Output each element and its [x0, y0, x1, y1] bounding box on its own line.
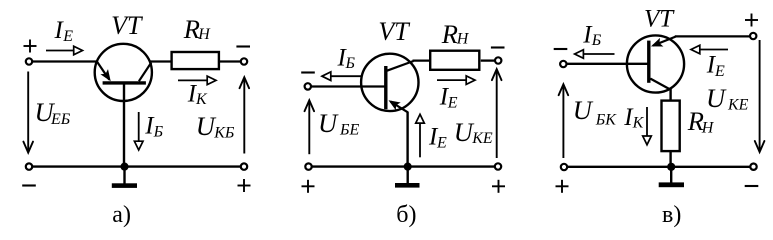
voltage arrow UKE (v) — [759, 40, 761, 150]
plus sign top-left (a) — [24, 45, 37, 47]
minus sign bottom-right (v) — [745, 185, 759, 187]
wire resistor to output (b) — [481, 59, 495, 61]
svg-text:U: U — [706, 83, 727, 113]
svg-text:К: К — [195, 91, 208, 108]
svg-text:в): в) — [662, 202, 681, 228]
svg-text:Н: Н — [197, 26, 211, 43]
resistor RH (a) — [172, 52, 219, 69]
svg-text:Е: Е — [436, 134, 447, 151]
current arrow IE vertical (b) — [419, 123, 421, 157]
terminal bottom-left (b) — [305, 163, 311, 169]
minus sign bottom-left (a) — [22, 184, 36, 186]
emitter lead with arrow (a) — [97, 62, 109, 80]
current arrow IB (a) — [138, 112, 140, 142]
svg-text:КБ: КБ — [213, 124, 235, 141]
terminal bottom-right (b) — [495, 163, 501, 169]
junction node (b) — [404, 163, 412, 171]
current arrow IE (a) — [46, 50, 75, 52]
svg-text:Е: Е — [62, 28, 73, 45]
emitter lead with arrow (v) — [653, 36, 676, 45]
transistor VT circle (b) — [361, 54, 418, 111]
svg-text:КЕ: КЕ — [727, 96, 749, 113]
wire base input (b) — [311, 85, 385, 87]
bottom rail (b) — [311, 165, 495, 167]
minus sign top-right (a) — [236, 45, 250, 47]
collector wire down (v) — [669, 89, 671, 101]
collector lead (v) — [650, 79, 671, 90]
wire base input (v) — [567, 63, 648, 65]
voltage arrow UKB (a) — [243, 79, 245, 154]
current arrow IE (v) — [700, 49, 729, 51]
junction node (a) — [120, 163, 128, 171]
svg-text:Н: Н — [456, 31, 470, 48]
ground bar (a) — [112, 183, 137, 188]
transistor VT circle (v) — [627, 35, 684, 92]
terminal input + (a) — [26, 58, 32, 64]
wire collector to resistor (a) — [150, 60, 171, 62]
svg-text:а): а) — [112, 202, 131, 228]
svg-text:К: К — [632, 115, 645, 132]
transistor VT base bar (v) — [647, 41, 650, 83]
svg-text:U: U — [318, 108, 339, 138]
plus sign bottom-left (b) — [302, 185, 315, 187]
svg-text:ЕБ: ЕБ — [50, 111, 71, 128]
terminal bottom-left (a) — [26, 163, 32, 169]
voltage arrow UBK (v) — [562, 86, 564, 158]
junction node (v) — [667, 163, 675, 171]
terminal output + (v) — [750, 33, 756, 39]
plus sign bottom-right (a) — [238, 185, 251, 187]
emitter wire down (b) — [406, 112, 408, 167]
svg-text:VT: VT — [111, 11, 143, 40]
ground stem (v) — [670, 167, 672, 183]
svg-text:БЕ: БЕ — [339, 121, 359, 138]
terminal output - (b) — [495, 57, 501, 63]
svg-text:R: R — [441, 19, 458, 49]
bottom rail (a) — [32, 165, 241, 167]
current arrow IB (b) — [331, 75, 363, 77]
terminal bottom-right (a) — [241, 163, 247, 169]
terminal input - (v) — [560, 61, 566, 67]
ground bar (b) — [395, 183, 420, 188]
ground bar (v) — [659, 182, 684, 187]
voltage arrow UKE (b) — [496, 71, 498, 158]
transistor VT base bar (b) — [384, 66, 387, 109]
wire resistor to output (a) — [220, 60, 241, 62]
terminal input - (b) — [305, 83, 311, 89]
resistor RH (b) — [430, 51, 479, 70]
svg-text:U: U — [573, 95, 594, 125]
svg-text:БК: БК — [595, 111, 617, 128]
svg-text:Е: Е — [714, 63, 725, 80]
collector lead (a) — [139, 63, 151, 82]
minus sign top-left (b) — [301, 71, 315, 73]
svg-text:Н: Н — [701, 120, 715, 137]
plus sign bottom-left (v) — [556, 185, 569, 187]
terminal output - (a) — [241, 58, 247, 64]
collector lead (b) — [387, 61, 414, 71]
wire resistor to rail (v) — [669, 152, 671, 167]
top rail emitter to terminal (v) — [675, 35, 750, 37]
transistor VT circle (a) — [95, 44, 152, 101]
minus sign top-left (v) — [554, 48, 568, 50]
base lead down (a) — [123, 83, 125, 167]
resistor RH vertical (v) — [662, 101, 680, 152]
svg-text:б): б) — [396, 202, 416, 228]
transistor VT base bar (a) — [103, 81, 146, 84]
plus sign bottom-right (b) — [492, 185, 505, 187]
svg-text:VT: VT — [378, 17, 410, 46]
terminal bottom-right (v) — [750, 164, 756, 170]
minus sign top-right (b) — [491, 46, 505, 48]
emitter lead with arrow (b) — [391, 102, 409, 113]
svg-text:Е: Е — [447, 95, 458, 112]
ground stem (a) — [123, 167, 125, 184]
current arrow IK (a) — [178, 79, 208, 81]
wire emitter input (a) — [32, 60, 97, 62]
terminal bottom-left (v) — [561, 164, 567, 170]
current arrow IK (v) — [646, 107, 648, 137]
wire collector to resistor (b) — [413, 59, 431, 61]
current arrow IE horizontal (b) — [437, 79, 467, 81]
svg-text:VT: VT — [644, 5, 675, 32]
ground stem (b) — [407, 167, 409, 184]
svg-text:Б: Б — [153, 124, 164, 141]
current arrow IB (v) — [583, 53, 614, 55]
plus sign top-right (v) — [745, 19, 758, 21]
svg-text:КЕ: КЕ — [471, 130, 493, 147]
bottom rail (v) — [567, 166, 750, 168]
svg-text:Б: Б — [345, 55, 356, 72]
svg-text:Б: Б — [591, 32, 602, 49]
voltage arrow UBE (b) — [308, 102, 310, 154]
voltage arrow UEB (a) — [27, 72, 29, 152]
